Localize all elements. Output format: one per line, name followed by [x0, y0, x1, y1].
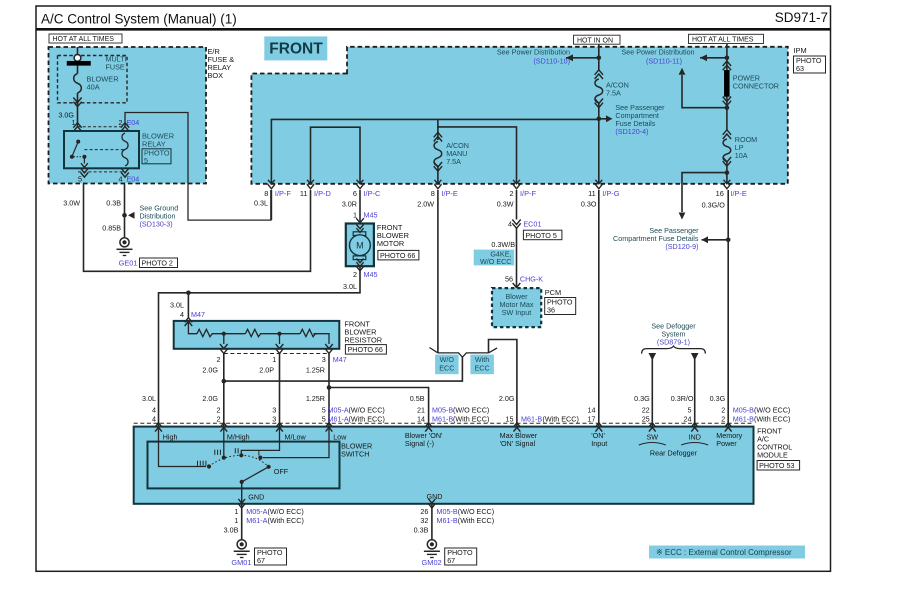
motor internal top connector: [356, 225, 363, 229]
wire to resistor pin 4: [187, 293, 189, 318]
svg-text:M05-B: M05-B: [437, 507, 458, 516]
motor pin 2 M45: [356, 266, 364, 271]
fuse A/CON 7.5A: [595, 74, 603, 79]
svg-text:See Power Distribution: See Power Distribution: [497, 48, 570, 57]
PHOTO 5 box (relay): [142, 149, 171, 164]
front blower motor box: [346, 224, 374, 267]
svg-text:4: 4: [508, 220, 512, 229]
fuse BLOWER 40A element: [77, 65, 79, 73]
arrow to SD120-4 text: [606, 115, 613, 122]
svg-text:RELAY: RELAY: [142, 139, 166, 148]
With ECC label box: [470, 355, 494, 375]
svg-text:67: 67: [257, 556, 265, 565]
junction dot room fuse branch: [725, 170, 730, 175]
svg-text:14: 14: [417, 414, 425, 423]
svg-text:11: 11: [588, 189, 596, 198]
svg-text:(SD120-4): (SD120-4): [615, 127, 648, 136]
resistor connector dashed line: [224, 353, 329, 355]
junction dot ground distribution: [122, 213, 127, 218]
switch contact OFF: [267, 465, 271, 469]
FRONT label box: [264, 36, 327, 60]
svg-text:8: 8: [264, 189, 268, 198]
wire 0.3G/O I/P-E pin16 to module memory power: [727, 190, 729, 427]
svg-text:I/P-D: I/P-D: [314, 189, 331, 198]
svg-text:6: 6: [353, 189, 357, 198]
svg-text:32: 32: [420, 516, 428, 525]
svg-text:E04: E04: [127, 174, 140, 183]
svg-text:SWITCH: SWITCH: [341, 449, 369, 458]
relay coil: [122, 133, 128, 166]
GND2 pin chevron: [429, 499, 436, 503]
svg-text:36: 36: [547, 306, 555, 315]
svg-text:M61-B: M61-B: [437, 516, 458, 525]
blower relay box: [64, 131, 139, 168]
wire fuse to junction: [598, 103, 600, 184]
label HOT AT ALL TIMES (right): [689, 34, 764, 43]
relay switch wire to pin 5: [83, 157, 85, 164]
svg-text:0.3G/O: 0.3G/O: [702, 201, 726, 210]
motor circle M: [350, 235, 371, 256]
switch wire M/High: [223, 427, 225, 456]
junction box pin 6 I/P-C: [357, 180, 364, 184]
relay switch output contact: [82, 155, 86, 159]
svg-text:M05-B: M05-B: [432, 405, 453, 414]
branch wire up to SD110-11 arrow: [682, 75, 727, 108]
PHOTO 53 box (module): [757, 461, 800, 471]
svg-text:22: 22: [642, 405, 650, 414]
resistor internal wire: [188, 322, 197, 333]
switch contact II: [239, 453, 243, 457]
wire 3.0W relay pin5 to I/P-D pin 11: [84, 184, 311, 271]
svg-text:SW: SW: [647, 433, 659, 442]
svg-text:Low: Low: [333, 432, 347, 441]
svg-text:3.0B: 3.0B: [224, 525, 239, 534]
defogger SW wire with arrow: [649, 353, 657, 361]
svg-text:HOT AT ALL TIMES: HOT AT ALL TIMES: [53, 36, 115, 43]
svg-text:10A: 10A: [735, 151, 748, 160]
svg-text:PHOTO 53: PHOTO 53: [759, 461, 794, 470]
wire dot to SD110-10 arrow: [566, 57, 599, 59]
svg-text:ECC: ECC: [475, 364, 490, 373]
dashed connector line pins 5-4: [78, 171, 126, 173]
svg-text:3: 3: [322, 355, 326, 364]
junction box pin 11 I/P-G: [595, 180, 602, 184]
svg-text:I/P-G: I/P-G: [602, 189, 619, 198]
svg-text:3: 3: [272, 405, 276, 414]
fuse terminal circle: [74, 55, 81, 62]
svg-text:(With ECC): (With ECC): [349, 414, 385, 423]
switch wire High: [159, 427, 207, 467]
wire stub above fuse terminal: [77, 47, 79, 55]
svg-text:0.3G: 0.3G: [634, 394, 650, 403]
module pin chevrons (top): [155, 423, 162, 427]
svg-text:See Power Distribution: See Power Distribution: [621, 48, 694, 57]
svg-text:2.0G: 2.0G: [499, 394, 515, 403]
svg-text:OFF: OFF: [274, 467, 289, 476]
motor brush top: [353, 232, 366, 236]
svg-text:3.0W: 3.0W: [63, 199, 80, 208]
svg-text:2: 2: [217, 355, 221, 364]
svg-text:2: 2: [353, 270, 357, 279]
svg-text:(With ECC): (With ECC): [458, 516, 494, 525]
connector EC01 pin 4: [512, 220, 520, 225]
svg-text:CHG-K: CHG-K: [520, 275, 543, 284]
svg-text:8: 8: [431, 189, 435, 198]
svg-text:5: 5: [78, 174, 82, 183]
svg-text:2.0P: 2.0P: [259, 366, 274, 375]
PHOTO 36 box (PCM): [545, 298, 576, 315]
PHOTO 66 box (resistor): [345, 345, 386, 355]
wire 2.0P resistor pin1 to switch M/Low: [279, 354, 281, 427]
svg-text:24: 24: [684, 414, 692, 423]
svg-text:(With ECC): (With ECC): [268, 516, 304, 525]
svg-text:(W/O ECC): (W/O ECC): [754, 405, 790, 414]
2.0G bus wire to ECC selector: [224, 357, 463, 381]
svg-text:1.25R: 1.25R: [306, 366, 325, 375]
svg-text:3.0L: 3.0L: [142, 394, 156, 403]
svg-text:M61-B: M61-B: [521, 414, 542, 423]
front A/C control module box: [134, 427, 754, 504]
switch selector dotted arc: [209, 455, 269, 467]
resistor junction dot 1: [222, 332, 226, 336]
wire 0.3B relay pin4 to ground GE01: [124, 184, 126, 238]
svg-text:3.0L: 3.0L: [170, 300, 184, 309]
front blower resistor box: [174, 321, 340, 349]
instrument panel junction box enclosure (stepped dashed cyan): [251, 47, 787, 184]
svg-text:(SD110-10): (SD110-10): [533, 57, 570, 66]
relay pin 1 connector chevrons: [73, 127, 81, 132]
svg-text:2: 2: [721, 414, 725, 423]
junction dot SD120-9: [726, 238, 731, 243]
svg-text:4: 4: [119, 174, 123, 183]
svg-text:M/Low: M/Low: [285, 432, 307, 441]
connector arrows below fuse: [73, 98, 81, 103]
svg-text:IND: IND: [689, 433, 701, 442]
svg-text:0.85B: 0.85B: [102, 224, 121, 233]
arrow to SD110-10: [566, 54, 573, 61]
junction dot 3.0L: [186, 291, 191, 296]
svg-text:0.3G: 0.3G: [710, 394, 726, 403]
svg-text:I/P-F: I/P-F: [520, 189, 536, 198]
ECC selector open contact tail right: [489, 348, 498, 353]
svg-text:0.3L: 0.3L: [254, 199, 268, 208]
coil feed wire from I/P-F pin 8 into relay pin 2: [125, 113, 271, 221]
svg-text:SD971-7: SD971-7: [775, 10, 828, 25]
svg-text:CONNECTOR: CONNECTOR: [733, 81, 779, 90]
svg-text:(With ECC): (With ECC): [754, 414, 790, 423]
branch wire to SD120-9 (exits box): [682, 173, 727, 212]
svg-text:7.5A: 7.5A: [606, 89, 621, 98]
svg-text:2: 2: [509, 189, 513, 198]
resistor element 1: [197, 329, 214, 336]
wire 0.3W I/P-F pin2 to EC01: [516, 190, 518, 220]
svg-text:PHOTO 5: PHOTO 5: [525, 231, 556, 240]
relay pin 5 connector chevrons: [81, 168, 89, 173]
svg-text:HOT AT ALL TIMES: HOT AT ALL TIMES: [692, 37, 754, 44]
PHOTO 2 box (GE01): [140, 258, 178, 268]
defogger curly brace: [642, 346, 706, 354]
svg-text:16: 16: [716, 189, 724, 198]
ground symbol GM02: [427, 540, 436, 549]
svg-text:(SD110-11): (SD110-11): [646, 57, 682, 66]
ECC selector open contact tail left: [430, 348, 438, 353]
svg-text:FRONT: FRONT: [269, 41, 323, 58]
blower switch inner box: [148, 442, 340, 489]
fuse ROOM LP 10A: [726, 108, 728, 130]
svg-text:(W/O ECC): (W/O ECC): [349, 405, 385, 414]
svg-text:EC01: EC01: [523, 220, 541, 229]
svg-text:I/P-E: I/P-E: [730, 189, 746, 198]
GND1 pin chevron: [238, 499, 245, 503]
svg-text:MODULE: MODULE: [757, 450, 788, 459]
svg-text:M61-B: M61-B: [733, 414, 754, 423]
loop wire I/P-D to I/P-C: [311, 127, 361, 184]
svg-text:25: 25: [642, 414, 650, 423]
svg-text:PHOTO 2: PHOTO 2: [142, 259, 173, 268]
svg-text:SW Input: SW Input: [502, 308, 532, 317]
svg-text:M61-B: M61-B: [432, 414, 453, 423]
svg-text:5: 5: [688, 405, 692, 414]
junction box pin 2 I/P-F: [513, 180, 520, 184]
E/R FUSE & RELAY BOX enclosure: [49, 47, 207, 184]
wire fuse to relay pin 1: [77, 93, 79, 127]
resistor internal output wires: [314, 334, 330, 344]
wire 2.0G resistor pin2 to switch M/High: [223, 354, 225, 427]
HOT AT ALL TIMES feed wire: [726, 44, 728, 58]
resistor element 2: [245, 329, 262, 336]
svg-text:7.5A: 7.5A: [446, 157, 461, 166]
junction dot 2.0G bus: [222, 379, 227, 384]
svg-text:E04: E04: [127, 118, 140, 127]
svg-text:4: 4: [152, 405, 156, 414]
svg-text:(SD120-9): (SD120-9): [665, 242, 698, 251]
svg-text:M47: M47: [191, 310, 205, 319]
svg-text:2.0W: 2.0W: [417, 200, 434, 209]
switch wire Low: [263, 427, 329, 458]
ECC selector wire with notch: [438, 353, 489, 357]
svg-text:PCM: PCM: [545, 288, 561, 297]
svg-text:A/C Control System (Manual) (1: A/C Control System (Manual) (1): [41, 12, 237, 27]
svg-text:2: 2: [721, 405, 725, 414]
svg-text:2: 2: [217, 414, 221, 423]
relay pin 4 connector chevrons: [121, 168, 129, 173]
PCM box (dashed): [492, 288, 541, 327]
svg-text:40A: 40A: [87, 83, 100, 92]
svg-text:(W/O ECC): (W/O ECC): [268, 507, 304, 516]
svg-text:15: 15: [506, 414, 514, 423]
svg-text:(W/O ECC): (W/O ECC): [458, 507, 494, 516]
svg-text:1.25R: 1.25R: [306, 394, 325, 403]
svg-text:I/P-F: I/P-F: [275, 189, 291, 198]
rear defogger grouping arcs: [639, 443, 666, 446]
svg-text:M47: M47: [333, 355, 347, 364]
label HOT AT ALL TIMES (left): [49, 34, 122, 43]
junction box pin 8 I/P-E: [435, 180, 442, 184]
junction box pin 11 I/P-D: [307, 180, 314, 184]
svg-text:BOX: BOX: [208, 71, 224, 80]
svg-text:M45: M45: [364, 270, 378, 279]
motor internal bottom connector: [356, 259, 363, 263]
junction box pin 8 I/P-F: [268, 180, 275, 184]
svg-text:17: 17: [588, 414, 596, 423]
svg-text:IPM: IPM: [794, 46, 807, 55]
switch contact III: [222, 456, 226, 460]
bus wire inside junction box: [271, 119, 598, 184]
svg-text:(With ECC): (With ECC): [543, 414, 579, 423]
svg-text:M61-A: M61-A: [246, 516, 267, 525]
svg-text:4: 4: [152, 414, 156, 423]
svg-text:Signal (-): Signal (-): [405, 439, 434, 448]
svg-text:5: 5: [322, 414, 326, 423]
svg-text:PHOTO 66: PHOTO 66: [348, 345, 383, 354]
svg-text:14: 14: [588, 405, 596, 414]
svg-text:FUSE: FUSE: [106, 63, 125, 72]
svg-text:※ ECC : External Control Compr: ※ ECC : External Control Compressor: [656, 548, 792, 557]
svg-text:1: 1: [234, 516, 238, 525]
junction dot 1.25R: [327, 385, 332, 390]
wire 0.3L I/P-F pin8 to relay coil feed: [270, 190, 272, 220]
svg-text:5: 5: [144, 156, 148, 165]
svg-text:3.0R: 3.0R: [342, 200, 357, 209]
wire 0.3O I/P-G pin11 to module ON input: [598, 190, 600, 427]
svg-text:M/High: M/High: [227, 432, 250, 441]
svg-text:M05-B: M05-B: [733, 405, 754, 414]
svg-text:26: 26: [420, 507, 428, 516]
svg-text:GM01: GM01: [231, 558, 251, 567]
svg-text:63: 63: [796, 64, 804, 73]
svg-text:Input: Input: [591, 439, 607, 448]
switch GND wire: [241, 482, 243, 504]
PHOTO 63 box (IPM): [794, 56, 826, 73]
fusible link bar: [67, 61, 91, 65]
svg-text:5: 5: [322, 405, 326, 414]
svg-text:2.0G: 2.0G: [202, 394, 218, 403]
svg-text:ECC: ECC: [439, 364, 454, 373]
wire 0.3W/B EC01 to PCM: [516, 227, 518, 288]
svg-text:1: 1: [234, 507, 238, 516]
svg-text:Power: Power: [716, 439, 737, 448]
ECC note box: [649, 546, 805, 559]
junction box pin 16 I/P-E: [724, 180, 731, 184]
switch moving arm: [242, 467, 269, 482]
svg-text:0.3W: 0.3W: [497, 200, 514, 209]
ground symbol GM01: [237, 540, 246, 549]
svg-text:2: 2: [217, 405, 221, 414]
switch contact I: [258, 456, 262, 460]
svg-text:PHOTO 66: PHOTO 66: [380, 251, 415, 260]
svg-text:GM02: GM02: [422, 558, 442, 567]
resistor element 3: [300, 329, 317, 336]
fuse A/CON MANU 7.5A: [437, 127, 439, 140]
svg-text:M45: M45: [364, 211, 378, 220]
svg-text:(W/O ECC): (W/O ECC): [453, 405, 489, 414]
svg-text:67: 67: [447, 556, 455, 565]
svg-text:I/P-E: I/P-E: [441, 189, 457, 198]
branch from bus to I/P-F pin2 via MANU fuse top: [438, 119, 517, 184]
svg-text:(SD130-3): (SD130-3): [140, 220, 173, 229]
switch wire M/Low: [241, 427, 279, 454]
svg-text:3.0L: 3.0L: [343, 282, 357, 291]
svg-text:HOT IN ON: HOT IN ON: [577, 37, 613, 44]
svg-text:High: High: [163, 432, 178, 441]
With-ECC hook wire to module pin 15: [489, 340, 517, 427]
G4KE W/O ECC highlight label: [474, 250, 515, 266]
title separator line: [36, 28, 831, 31]
svg-text:0.3W/B: 0.3W/B: [491, 240, 515, 249]
motor brush bottom: [353, 256, 366, 260]
svg-text:M05-A: M05-A: [246, 507, 267, 516]
PHOTO 66 box (motor): [378, 250, 419, 260]
relay switch arm: [72, 142, 78, 157]
svg-text:I/P-C: I/P-C: [364, 189, 381, 198]
wire 2.0W I/P-E pin8 down to ECC selector: [437, 190, 439, 353]
svg-text:GE01: GE01: [119, 258, 138, 267]
svg-text:Rear Defogger: Rear Defogger: [650, 448, 698, 457]
svg-text:M61-A: M61-A: [328, 414, 349, 423]
svg-text:1: 1: [272, 355, 276, 364]
svg-text:GND: GND: [248, 493, 264, 502]
defogger IND wire with arrow: [691, 353, 699, 361]
junction dot bus/SD120-4: [597, 117, 602, 122]
junction below power connector: [725, 105, 730, 110]
resistor output chevrons: [220, 344, 228, 349]
svg-text:'ON' Signal: 'ON' Signal: [500, 439, 536, 448]
label HOT IN ON: [574, 35, 621, 44]
svg-text:56: 56: [505, 275, 513, 284]
power connector symbol: [723, 65, 731, 70]
switch common dot: [240, 480, 244, 484]
relay switch fixed contact: [76, 140, 80, 144]
svg-text:RESISTOR: RESISTOR: [344, 336, 382, 345]
svg-text:MOTOR: MOTOR: [377, 239, 404, 248]
svg-text:0.3B: 0.3B: [106, 199, 121, 208]
relay actuation dashed link: [84, 149, 124, 151]
W/O ECC label box: [435, 355, 459, 375]
svg-text:4: 4: [180, 310, 184, 319]
switch contact IIII: [207, 464, 211, 468]
0.5B branch wire to module blower-on pin: [329, 388, 429, 427]
wire 3.0R I/P-C pin6 to blower motor: [359, 190, 361, 224]
svg-text:2.0G: 2.0G: [202, 366, 218, 375]
svg-text:W/O ECC: W/O ECC: [480, 257, 512, 266]
svg-text:0.3R/O: 0.3R/O: [671, 394, 694, 403]
module connector dashed line: [134, 422, 754, 424]
ground symbol GE01: [120, 238, 129, 247]
svg-text:(With ECC): (With ECC): [453, 414, 489, 423]
svg-text:0.3O: 0.3O: [581, 200, 597, 209]
resistor junction dot 2: [277, 332, 281, 336]
svg-text:M: M: [356, 241, 364, 251]
svg-text:21: 21: [417, 405, 425, 414]
svg-text:0.5B: 0.5B: [410, 394, 425, 403]
svg-text:M05-A: M05-A: [328, 405, 349, 414]
PHOTO 67 box (GM02): [445, 548, 477, 565]
svg-text:3: 3: [272, 414, 276, 423]
resistor pin 4 entry chevrons: [185, 318, 193, 323]
dashed connector line pins 1-2: [78, 126, 126, 128]
arrow to SD120-9: [702, 236, 709, 243]
PHOTO 5 box (EC01): [523, 230, 562, 240]
wire 1.25R resistor pin3 to switch Low: [328, 354, 330, 427]
PHOTO 67 box (GM01): [255, 548, 287, 565]
arrow see ground distribution: [128, 212, 135, 219]
arrow to SD110-11: [700, 54, 707, 61]
HOT IN ON feed wire: [598, 44, 600, 70]
multi fuse dashed box: [58, 56, 128, 103]
wire 3.0L motor to resistor/switch: [159, 266, 361, 426]
svg-text:11: 11: [300, 189, 308, 198]
relay pin 2 connector chevrons: [121, 127, 129, 132]
